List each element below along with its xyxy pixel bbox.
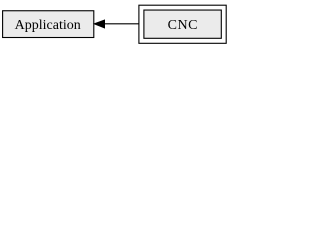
- node CNC outer border: [139, 5, 226, 43]
- wire edge CNC to Application: [104, 23, 139, 25]
- background: [0, 0, 229, 48]
- svg-text:Application: Application: [15, 18, 81, 33]
- arrowhead pointing left: [94, 20, 104, 28]
- svg-text:CNC: CNC: [168, 18, 198, 33]
- node CNC inner box: [144, 10, 221, 38]
- node Application box: [3, 11, 94, 38]
